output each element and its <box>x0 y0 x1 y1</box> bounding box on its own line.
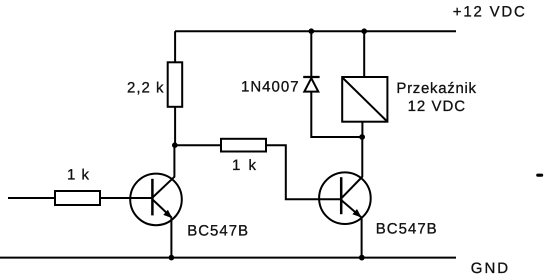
svg-text:12 VDC: 12 VDC <box>408 98 467 115</box>
svg-text:BC547B: BC547B <box>376 220 438 237</box>
svg-text:1 k: 1 k <box>67 166 90 183</box>
svg-text:GND: GND <box>471 260 510 277</box>
svg-text:1 k: 1 k <box>232 157 258 174</box>
svg-text:1N4007: 1N4007 <box>241 78 300 95</box>
svg-text:Przekaźnik: Przekaźnik <box>396 80 476 97</box>
svg-text:BC547B: BC547B <box>187 223 249 240</box>
svg-text:2,2 k: 2,2 k <box>127 80 165 97</box>
svg-text:+12 VDC: +12 VDC <box>453 3 527 20</box>
